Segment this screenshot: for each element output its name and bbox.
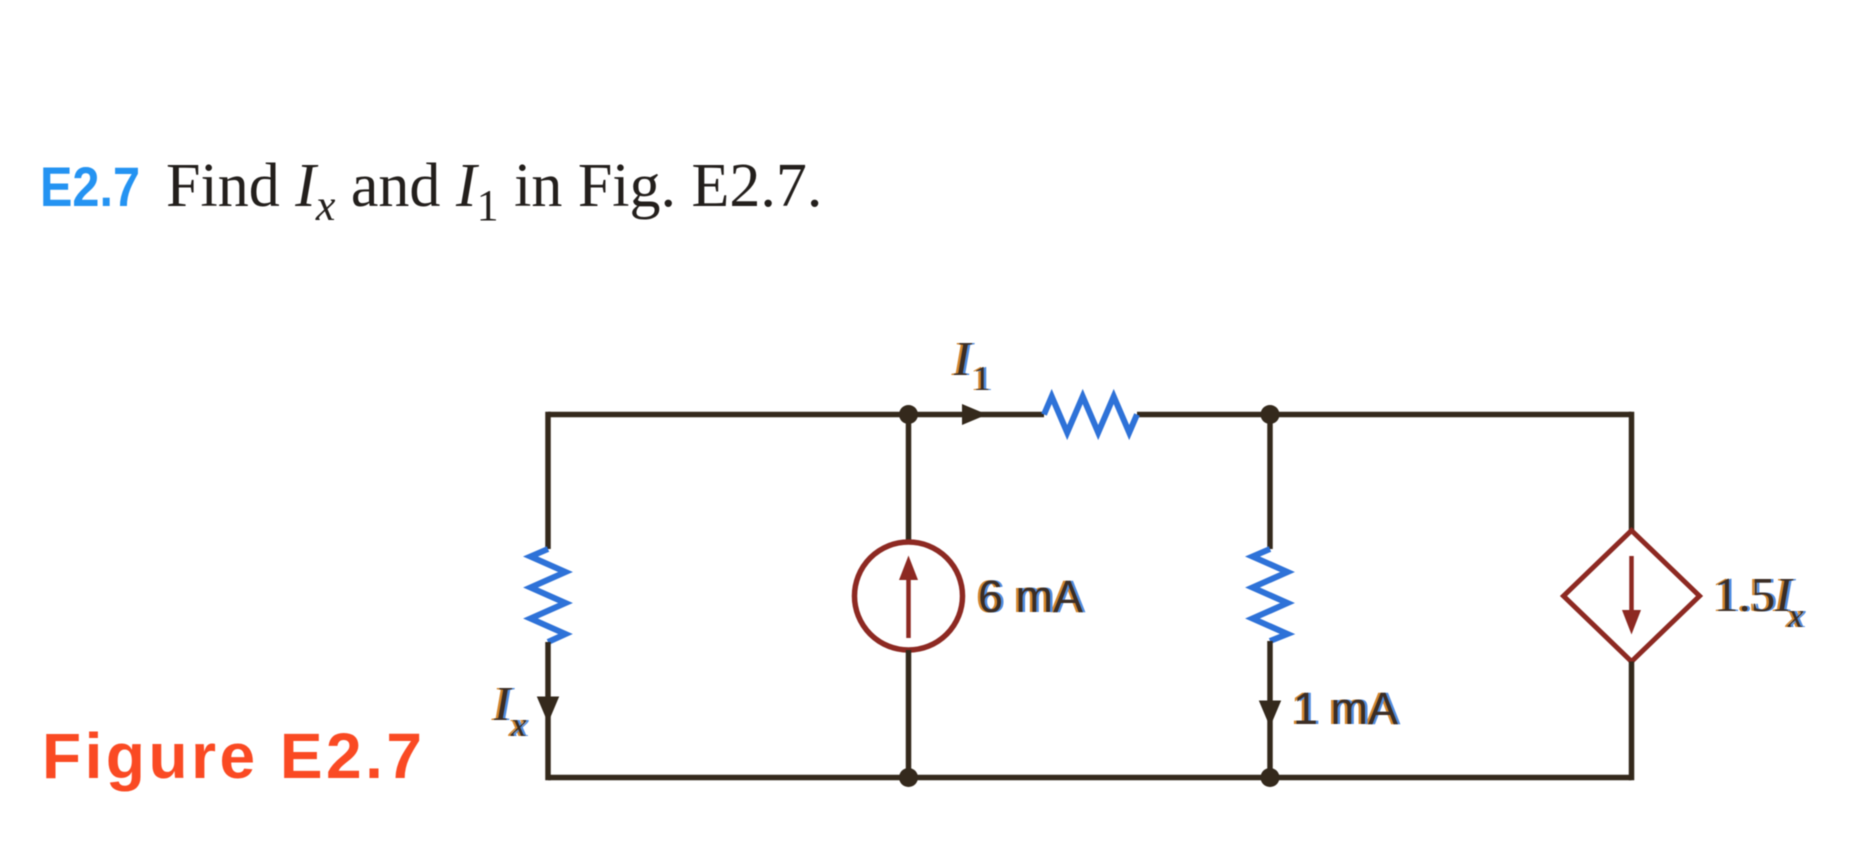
node B junction dot (top of 1 mA branch) (1261, 405, 1280, 424)
svg-text:1: 1 (973, 359, 991, 398)
wire: top rail right section (resistor to top-right corner) (1137, 412, 1632, 418)
label 6 mA (976, 571, 1086, 622)
current source 6 mA (circle) (855, 542, 963, 650)
wire: 6 mA branch upper segment (906, 415, 912, 543)
node D junction dot (bottom of 1 mA branch) (1261, 768, 1280, 787)
current arrow I1 (right arrowhead on top rail) (962, 404, 987, 425)
svg-text:x: x (1787, 596, 1804, 635)
current arrow 1 mA (down arrowhead) (1259, 701, 1281, 728)
svg-text:x: x (510, 705, 527, 744)
wire: bottom rail (548, 775, 1632, 781)
node C junction dot (bottom of 6 mA source) (899, 768, 918, 787)
figure caption Figure E2.7 (42, 720, 426, 792)
wire: 1 mA branch lower segment (1267, 641, 1273, 778)
heading text E2.7 Find Ix and I1 in Fig. E2.7. (40, 152, 822, 230)
wire: top rail left section (top-left corner to resistor) (548, 412, 1044, 418)
wire: left branch lower segment (545, 642, 551, 780)
wire: right branch lower segment (1629, 662, 1635, 781)
wire: right branch upper segment (1629, 412, 1635, 531)
svg-text:E2.7: E2.7 (40, 155, 140, 218)
label I1 (951, 331, 994, 398)
resistor (top rail, between node A and node B) (1044, 397, 1137, 433)
label 1 mA (1291, 683, 1401, 734)
current arrow Ix (down arrowhead on left branch) (537, 697, 559, 724)
svg-text:6 mA: 6 mA (978, 571, 1083, 622)
resistor (1 mA branch) (1253, 549, 1288, 641)
resistor (left branch, carries Ix) (531, 549, 566, 642)
wire: 1 mA branch upper segment (1267, 415, 1273, 550)
svg-text:1 mA: 1 mA (1293, 683, 1398, 734)
wire: left branch upper segment (545, 412, 551, 549)
svg-text:1.5I: 1.5I (1714, 567, 1794, 622)
dependent current source 1.5Ix (diamond) (1564, 531, 1700, 662)
wire: 6 mA branch lower segment (906, 650, 912, 778)
label Ix (491, 676, 530, 744)
node A junction dot (top of 6 mA source) (899, 405, 918, 424)
arrow inside dependent source (pointing down) (1622, 556, 1641, 635)
svg-text:Figure E2.7: Figure E2.7 (42, 720, 426, 792)
arrow inside 6 mA source (pointing up) (899, 556, 918, 639)
label 1.5Ix (1712, 567, 1807, 635)
